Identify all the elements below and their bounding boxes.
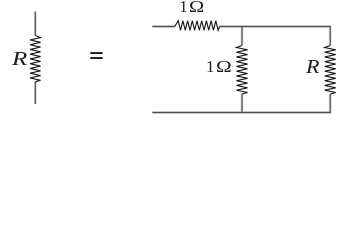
label 1 ohm (horizontal resistor) bbox=[179, 0, 202, 17]
resistor R (left equivalent resistor) zigzag body bbox=[30, 36, 41, 82]
wire: left resistor bottom lead bbox=[34, 82, 36, 104]
label R (right resistor) bbox=[306, 56, 319, 79]
resistor R (right) zigzag body bbox=[325, 46, 336, 95]
label R (left resistor) bbox=[12, 48, 27, 71]
label 1 ohm (middle resistor) bbox=[206, 57, 229, 77]
wire: top rail left segment bbox=[152, 26, 174, 28]
wire soft halos (decorative underlay) bbox=[35, 12, 331, 113]
wire: middle resistor top lead bbox=[241, 27, 243, 46]
resistor 1-ohm vertical (middle) zigzag body bbox=[236, 46, 247, 95]
resistor 1-ohm horizontal zigzag body bbox=[175, 21, 220, 31]
wire: left resistor top lead bbox=[34, 12, 36, 36]
wire: right resistor bottom lead bbox=[329, 94, 331, 113]
equals sign bbox=[90, 52, 102, 59]
wire: bottom rail bbox=[152, 112, 330, 114]
wire: middle resistor bottom lead bbox=[241, 94, 243, 113]
wire: top rail right segment with corner and right R top lead bbox=[220, 27, 330, 46]
